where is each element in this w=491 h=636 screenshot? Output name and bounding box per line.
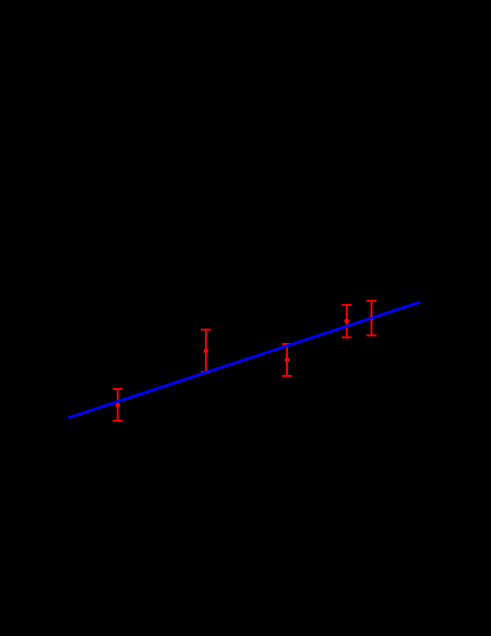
errorbar point 4 (342, 305, 352, 338)
errorbar point 1 (113, 389, 123, 421)
errorbar point 5 (367, 301, 377, 336)
fit line (68, 302, 420, 418)
errorbar point 2 (201, 330, 211, 372)
errorbar point 3 (282, 344, 292, 376)
